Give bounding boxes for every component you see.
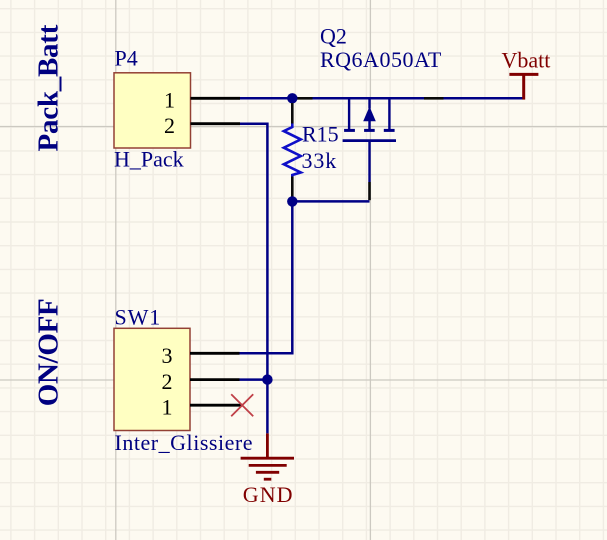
svg-text:Inter_Glissiere: Inter_Glissiere bbox=[115, 430, 254, 455]
pin SW1.3 bbox=[190, 352, 240, 355]
svg-text:33k: 33k bbox=[302, 148, 338, 173]
svg-text:P4: P4 bbox=[115, 46, 138, 71]
pin SW1.1 bbox=[190, 404, 242, 407]
svg-text:Q2: Q2 bbox=[320, 23, 347, 48]
pin Q2 drain (black overlay left) bbox=[296, 97, 313, 100]
wire SW1.2 to junction bbox=[240, 378, 268, 381]
svg-text:GND: GND bbox=[243, 482, 294, 507]
wire top net to Vbatt bbox=[292, 97, 523, 100]
svg-text:H_Pack: H_Pack bbox=[114, 147, 184, 172]
svg-text:3: 3 bbox=[162, 343, 173, 368]
no-ERC marker X on SW1.1 bbox=[231, 394, 253, 416]
svg-text:1: 1 bbox=[164, 88, 175, 113]
resistor R15 bbox=[284, 103, 301, 197]
svg-text:R15: R15 bbox=[302, 121, 339, 146]
svg-text:SW1: SW1 bbox=[115, 304, 162, 329]
wire P4.2 down to SW1.2 and GND bbox=[240, 124, 267, 434]
transistor Q2 substrate arrow bbox=[363, 107, 376, 122]
junction SW1.2/GND bbox=[262, 374, 272, 384]
svg-text:RQ6A050AT: RQ6A050AT bbox=[320, 47, 442, 72]
pin SW1.2 bbox=[190, 378, 240, 381]
wire P4.1 to junction bbox=[240, 97, 292, 100]
svg-text:2: 2 bbox=[164, 113, 175, 138]
connector P4 body bbox=[114, 73, 191, 148]
svg-text:Vbatt: Vbatt bbox=[502, 48, 551, 73]
pin P4.2 bbox=[191, 122, 241, 125]
transistor Q2 symbol bbox=[343, 100, 396, 183]
wire gate to junction bbox=[292, 200, 369, 203]
power port Vbatt bbox=[509, 74, 538, 99]
pin Q2 source (black overlay right) bbox=[424, 97, 444, 100]
wire junction down to SW1.3 bbox=[240, 201, 293, 353]
power port GND bbox=[241, 433, 294, 479]
switch SW1 body bbox=[114, 328, 190, 430]
pin Q2 gate (black) bbox=[368, 182, 371, 200]
pin P4.1 bbox=[191, 97, 241, 100]
junction top (P4.1/R15/Q2) bbox=[287, 93, 297, 103]
svg-text:Pack_Batt: Pack_Batt bbox=[33, 24, 65, 151]
junction bottom (R15/gate/SW1.3) bbox=[287, 196, 297, 206]
svg-text:1: 1 bbox=[162, 395, 173, 420]
svg-text:ON/OFF: ON/OFF bbox=[32, 299, 64, 407]
svg-text:2: 2 bbox=[162, 369, 173, 394]
